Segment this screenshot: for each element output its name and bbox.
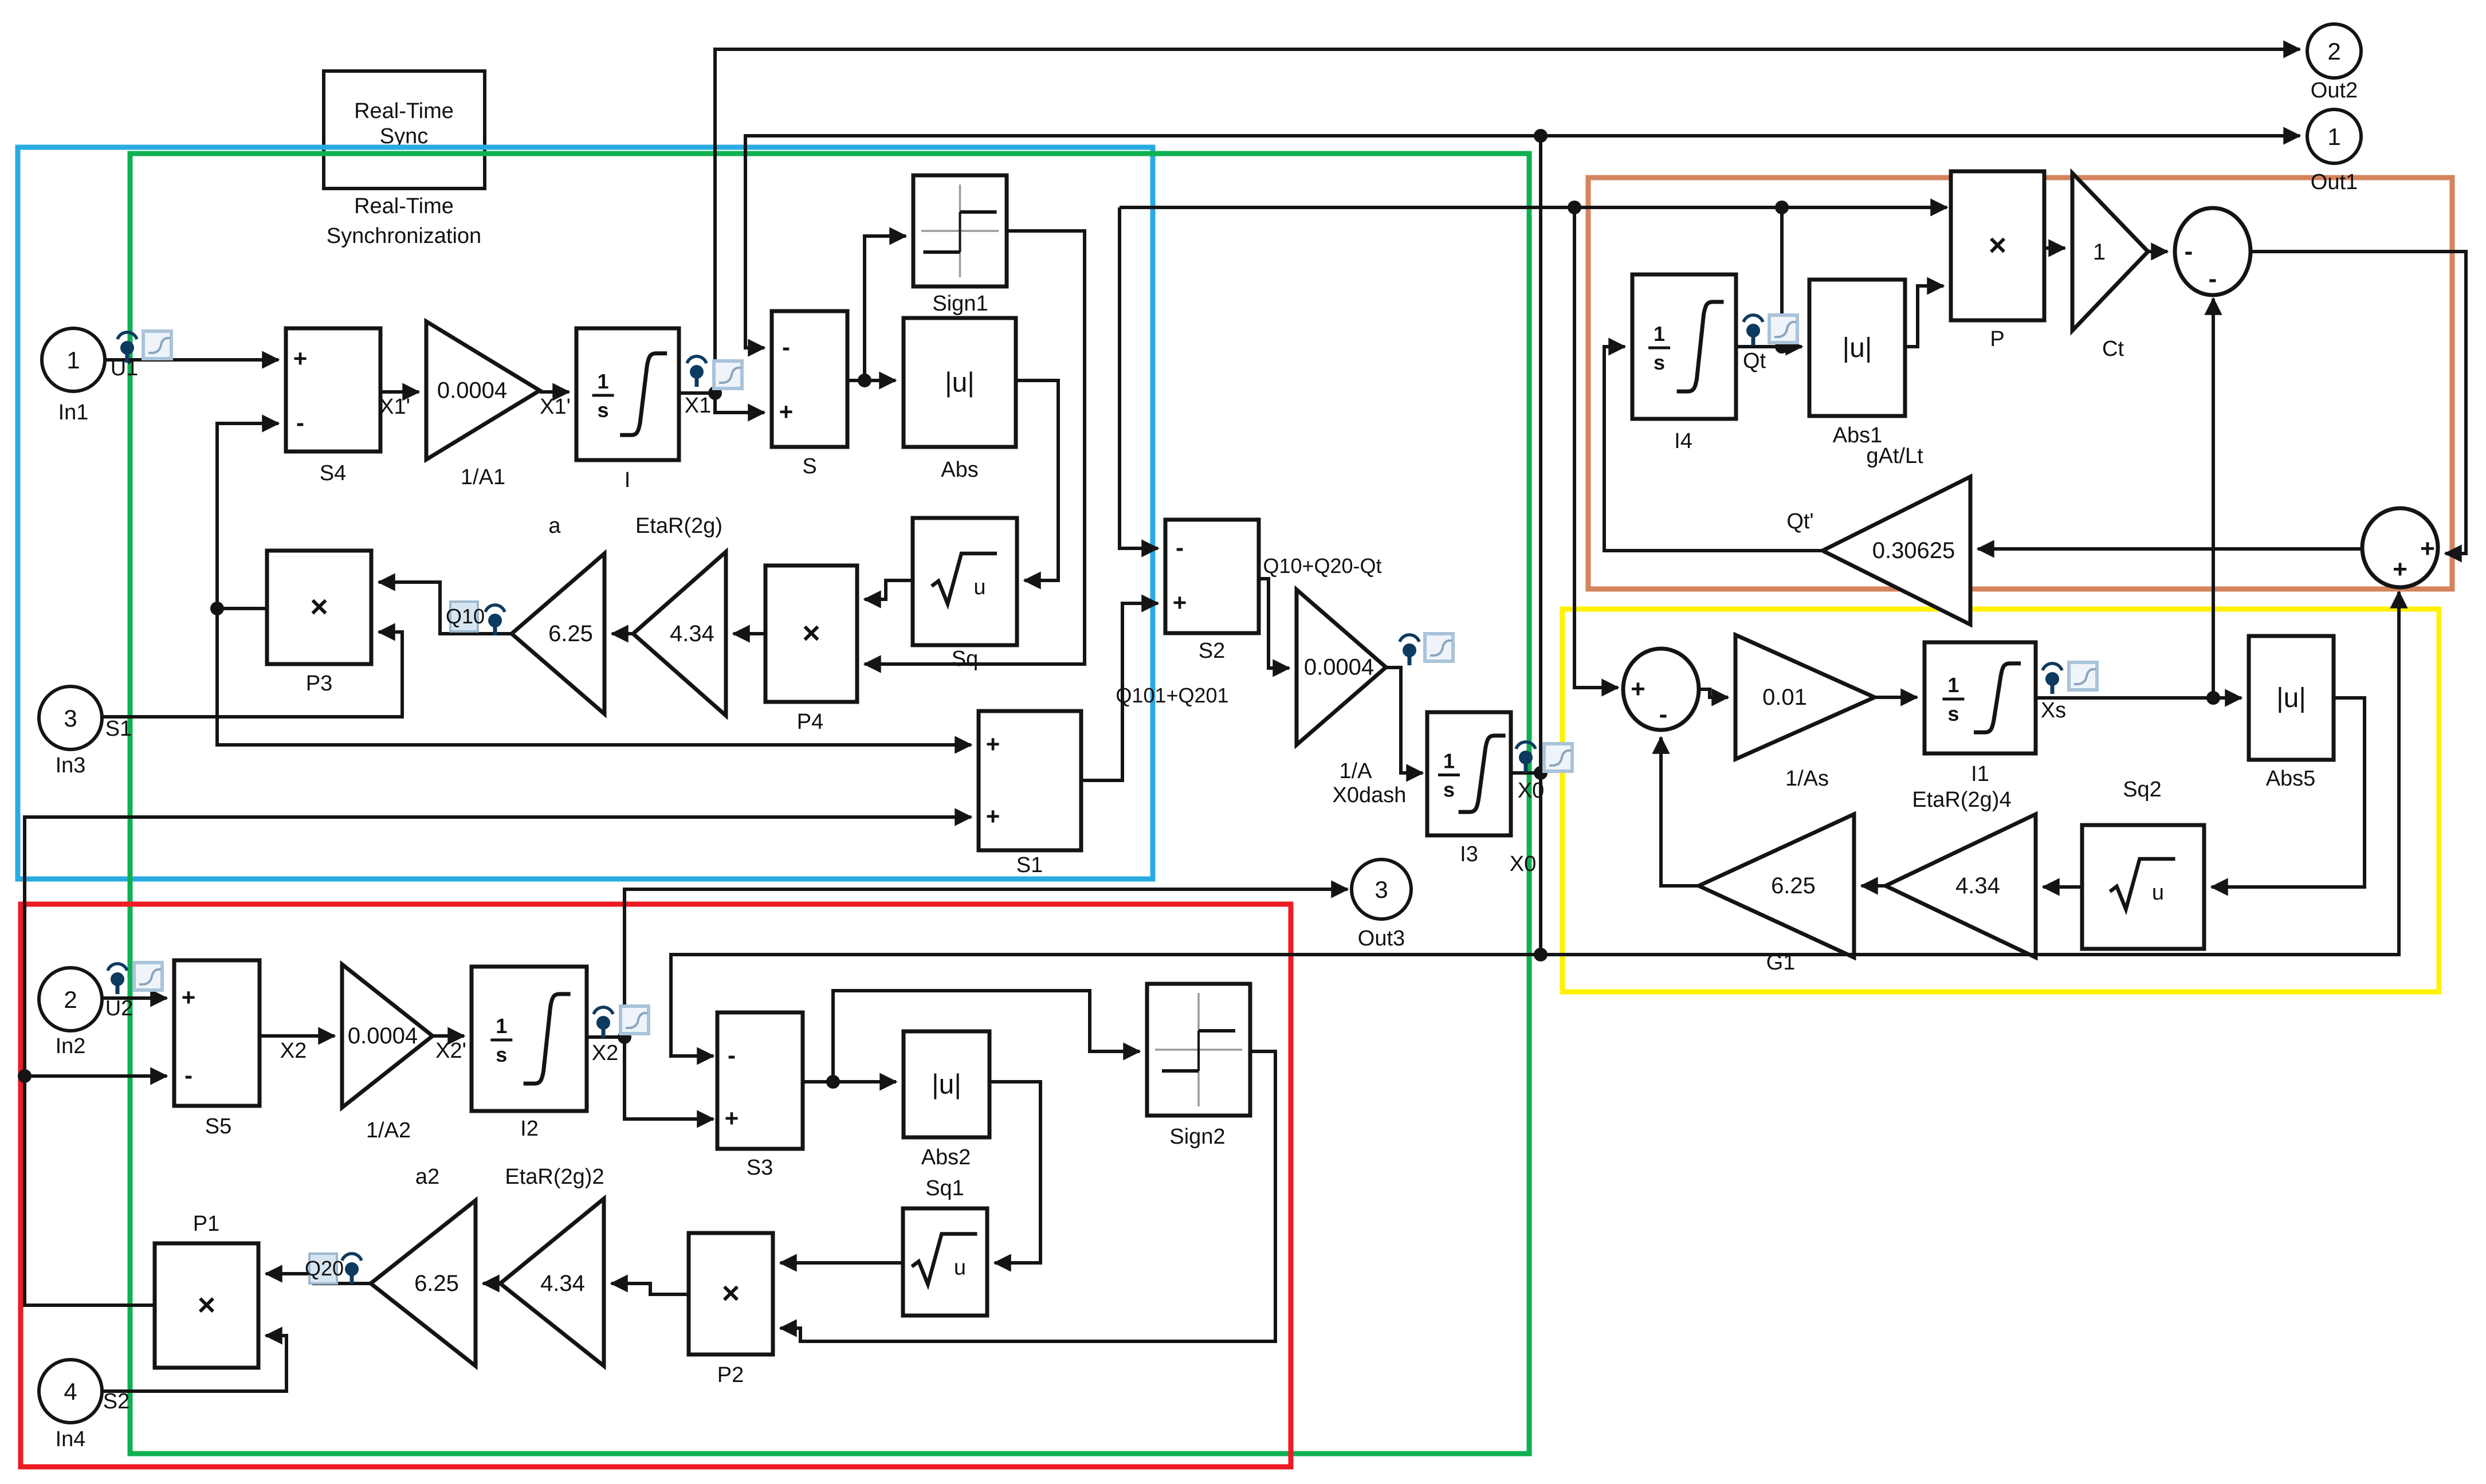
svg-text:S1: S1 <box>1016 853 1043 877</box>
svg-text:I4: I4 <box>1674 429 1692 453</box>
wire In3 to P3 <box>102 632 402 717</box>
label X1 <box>685 394 711 418</box>
integrator I2 <box>472 967 587 1111</box>
wire S2 out to gain 1/A <box>1259 579 1289 668</box>
testpoint X1 <box>687 356 706 387</box>
svg-text:4: 4 <box>64 1378 77 1405</box>
output port Out3 <box>1352 859 1411 919</box>
wire gain 4.34 to gain 6.25 <box>612 632 633 635</box>
svg-text:Q10+Q20-Qt: Q10+Q20-Qt <box>1263 554 1381 578</box>
label Abs5 <box>2266 767 2316 791</box>
label Xs <box>2041 698 2066 723</box>
node Xs junction <box>2206 691 2220 705</box>
svg-text:Synchronization: Synchronization <box>327 224 481 248</box>
wire Abs5 to Sq2 <box>2212 698 2365 887</box>
label S2 <box>1199 639 1225 663</box>
testpoint Q10 <box>485 605 505 635</box>
integrator I1 <box>1925 642 2036 753</box>
wire P1 out up to S1 second <box>25 817 971 1305</box>
svg-text:Out1: Out1 <box>2311 170 2358 194</box>
sum S4 <box>286 328 380 452</box>
svg-text:a: a <box>548 514 561 538</box>
svg-text:I3: I3 <box>1460 842 1478 866</box>
svg-text:In4: In4 <box>56 1427 86 1451</box>
testpoint X2 <box>594 1007 613 1038</box>
svg-text:I1: I1 <box>1971 762 1989 786</box>
svg-text:gAt/Lt: gAt/Lt <box>1866 444 1923 468</box>
label S5 <box>205 1114 231 1138</box>
svg-text:u: u <box>2152 881 2164 905</box>
svg-text:|u|: |u| <box>945 368 975 398</box>
group box orange <box>1588 178 2452 589</box>
wire Ct to CtSum <box>2148 250 2167 253</box>
scope badge X0dash <box>1425 634 1453 661</box>
svg-text:6.25: 6.25 <box>414 1271 459 1296</box>
scope badge X0 <box>1544 744 1572 771</box>
svg-text:-: - <box>184 1062 193 1089</box>
svg-text:1: 1 <box>598 370 609 393</box>
wire S1 out to S2 plus <box>1081 603 1158 780</box>
svg-text:3: 3 <box>1374 876 1388 903</box>
scope badge X1 <box>714 361 742 388</box>
svg-text:1: 1 <box>2093 240 2106 265</box>
node Qt-top junction <box>1775 201 1789 214</box>
svg-text:+: + <box>779 398 794 425</box>
wire Qt line to S2 minus <box>1120 207 1158 548</box>
input port In2 <box>39 968 102 1031</box>
svg-text:X2': X2' <box>435 1039 466 1063</box>
wire X2 to Out3 <box>625 889 1348 1037</box>
svg-text:-: - <box>1176 534 1184 561</box>
svg-text:Abs: Abs <box>941 458 978 482</box>
wire P2 to gain 4.34 b <box>611 1283 689 1294</box>
group box blue <box>18 147 1153 879</box>
gain 1/A1 0.0004 <box>426 321 540 460</box>
product P4 <box>765 566 857 702</box>
svg-text:1: 1 <box>1443 749 1455 773</box>
label P2 <box>717 1363 744 1387</box>
svg-text:P4: P4 <box>797 710 823 734</box>
product P1 <box>155 1243 258 1368</box>
svg-text:s: s <box>1654 351 1665 374</box>
sum circle XsSum <box>1623 649 1699 730</box>
label I <box>625 468 631 492</box>
wire Sq2 to gain 4.34 c <box>2043 885 2082 889</box>
svg-text:Xs: Xs <box>2041 698 2066 723</box>
label Sign1 <box>932 292 988 316</box>
svg-text:P3: P3 <box>306 672 332 696</box>
label Q101+Q201 <box>1116 684 1228 707</box>
wire S4 to gain 1/A1 <box>380 390 419 394</box>
wire Q20 gain to P1 upper <box>266 1274 371 1283</box>
svg-text:Sq: Sq <box>952 647 978 671</box>
label X2 node <box>592 1041 618 1065</box>
svg-text:0.0004: 0.0004 <box>1304 655 1374 680</box>
label Abs2 <box>921 1145 971 1169</box>
label I4 <box>1674 429 1692 453</box>
svg-text:2: 2 <box>2327 38 2340 65</box>
wire I3 out to X0 node <box>1511 771 1541 775</box>
integrator I <box>576 328 679 460</box>
label P4 <box>797 710 823 734</box>
wire I2 out to X2 node <box>587 1035 625 1039</box>
sqrt block Sq <box>913 518 1017 645</box>
svg-text:In2: In2 <box>56 1034 86 1058</box>
abs block Abs <box>904 318 1016 447</box>
svg-text:+: + <box>725 1105 739 1132</box>
label U2 <box>105 996 133 1020</box>
svg-text:+: + <box>293 345 308 372</box>
svg-text:+: + <box>2393 555 2408 583</box>
svg-text:×: × <box>198 1288 216 1322</box>
gain 1/A2 0.0004 <box>342 964 433 1108</box>
label In4 <box>56 1427 86 1451</box>
svg-text:Out3: Out3 <box>1358 926 1405 951</box>
svg-text:+: + <box>182 984 196 1011</box>
label EtaR(2g)2 <box>505 1165 604 1189</box>
svg-text:×: × <box>310 590 328 624</box>
svg-text:EtaR(2g)4: EtaR(2g)4 <box>1912 788 2011 812</box>
wire S3 out to Abs2 <box>803 1080 896 1083</box>
label Sign2 <box>1169 1125 1225 1149</box>
label Qtprime <box>1786 509 1813 533</box>
wire Qt top to yellow sum <box>1574 207 1618 688</box>
gain g4.34 4.34 <box>1886 814 2036 957</box>
group box green <box>130 154 1529 1454</box>
wire I1 out to Abs5 <box>2036 696 2241 700</box>
svg-text:3: 3 <box>64 705 77 732</box>
label S <box>802 454 816 478</box>
svg-text:P: P <box>1990 327 2004 351</box>
label Sq2 <box>2123 778 2162 802</box>
svg-text:S5: S5 <box>205 1114 231 1138</box>
input port In4 <box>39 1360 102 1423</box>
wire In4 to P1 lower <box>100 1336 286 1391</box>
node X0-Out1 junction <box>1534 129 1548 143</box>
label a <box>548 514 561 538</box>
scope badge Xs <box>2069 662 2097 690</box>
node Qt-yellow junction <box>1568 201 1581 214</box>
svg-text:Sign1: Sign1 <box>932 292 988 316</box>
label X2 sig <box>280 1039 307 1063</box>
svg-text:s: s <box>1443 778 1455 802</box>
product P <box>1951 171 2044 320</box>
node S out junction <box>858 374 871 387</box>
sum circle QSum <box>2362 508 2438 587</box>
sum circle CtSum <box>2175 208 2251 295</box>
svg-text:X1': X1' <box>379 395 410 419</box>
svg-text:2: 2 <box>64 986 77 1013</box>
svg-text:Q10: Q10 <box>446 604 485 628</box>
node S3 out junction <box>826 1075 840 1089</box>
svg-text:|u|: |u| <box>932 1070 961 1100</box>
wire S5 to gain 1/A2 <box>260 1034 335 1038</box>
svg-text:I: I <box>625 468 631 492</box>
label Ct <box>2102 337 2124 361</box>
svg-text:In1: In1 <box>58 401 89 425</box>
svg-text:+: + <box>986 803 1000 830</box>
svg-text:0.30625: 0.30625 <box>1872 538 1955 563</box>
wire G1 X0 to QSum <box>1541 592 2399 955</box>
wire Abs1 to P lower <box>1905 286 1943 347</box>
scope badge X2 <box>620 1006 649 1034</box>
label In3 <box>56 753 86 778</box>
wire Abs2 to Sq1 <box>989 1082 1040 1263</box>
label In1 <box>58 401 89 425</box>
wire Out1 branch to S minus <box>745 136 1541 348</box>
integrator I3 <box>1427 712 1511 835</box>
node X1 junction <box>708 386 722 400</box>
sqrt block Sq1 <box>903 1208 987 1316</box>
svg-text:×: × <box>802 616 820 650</box>
wire Sq1 to P2 upper <box>780 1261 903 1265</box>
gain Ct 1 <box>2072 173 2148 331</box>
svg-text:-: - <box>296 409 304 436</box>
sum S5 <box>174 960 260 1106</box>
sum S3 <box>717 1012 803 1149</box>
svg-text:Q20: Q20 <box>305 1257 344 1280</box>
svg-text:s: s <box>598 398 609 422</box>
group box yellow <box>1562 609 2439 992</box>
svg-text:|u|: |u| <box>1843 333 1872 363</box>
label Out3 <box>1358 926 1405 951</box>
svg-text:×: × <box>722 1276 740 1310</box>
wire X0 vertical <box>1539 136 1542 955</box>
svg-text:X0dash: X0dash <box>1333 783 1407 807</box>
wire Sq to P4 upper <box>865 580 913 599</box>
abs block Abs5 <box>2249 636 2334 760</box>
svg-text:6.25: 6.25 <box>1771 873 1816 898</box>
gain a2 6.25 <box>371 1200 476 1366</box>
wire gain 0.30625 to I4 <box>1604 347 1823 551</box>
testpoint U2 <box>108 964 127 994</box>
svg-text:Sq2: Sq2 <box>2123 778 2162 802</box>
testpoint Xs <box>2043 664 2062 694</box>
svg-text:S2: S2 <box>103 1389 129 1414</box>
svg-text:Abs2: Abs2 <box>921 1145 971 1169</box>
testpoint Qt <box>1743 315 1763 346</box>
svg-text:a2: a2 <box>415 1165 439 1189</box>
label In2 <box>56 1034 86 1058</box>
label S4 <box>320 461 346 485</box>
input port In3 <box>39 686 102 749</box>
svg-text:Out2: Out2 <box>2311 78 2358 103</box>
wire CtSum out loop to QSum <box>2251 252 2466 553</box>
svg-text:Q101+Q201: Q101+Q201 <box>1116 684 1228 707</box>
svg-text:1/A2: 1/A2 <box>366 1118 411 1143</box>
svg-text:×: × <box>1989 228 2007 262</box>
svg-text:X1': X1' <box>540 395 571 419</box>
subsystem Real-Time Sync <box>324 71 485 189</box>
svg-text:X1: X1 <box>685 394 711 418</box>
svg-text:+: + <box>2420 535 2435 563</box>
sign block Sign2 <box>1147 984 1250 1116</box>
wire Q10 gain 6.25 to P3 <box>379 582 512 634</box>
svg-text:1/A: 1/A <box>1339 759 1372 783</box>
gain a 6.25 <box>512 553 604 714</box>
wire U1 In1 to S4 <box>103 358 278 362</box>
scope badge U2 <box>134 963 162 990</box>
wire X2 to S3 plus <box>625 1037 713 1119</box>
wire XsSum out to gain 0.01 <box>1699 689 1728 697</box>
scope badge U1 <box>143 331 171 359</box>
sum S2 <box>1165 520 1259 633</box>
svg-text:1: 1 <box>66 347 80 374</box>
wire I4 out to Abs1 <box>1736 345 1802 348</box>
wire Xs up to CtSum minus <box>2212 299 2215 698</box>
svg-text:U2: U2 <box>105 996 133 1020</box>
wire gain 6.25c to XsSum minus <box>1661 737 1699 886</box>
node X2 junction <box>618 1030 631 1044</box>
svg-text:X2: X2 <box>280 1039 307 1063</box>
svg-text:-: - <box>1659 700 1668 728</box>
label P1 <box>193 1212 219 1236</box>
label EtaR(2g)4 <box>1912 788 2011 812</box>
svg-text:0.0004: 0.0004 <box>437 378 507 403</box>
label X1prime a <box>379 395 410 419</box>
node X0 junction <box>1534 766 1548 780</box>
wire gain 0.01 to I1 <box>1875 696 1917 699</box>
tag Q10 <box>446 602 485 631</box>
svg-text:1: 1 <box>1654 322 1665 346</box>
svg-text:4.34: 4.34 <box>1955 873 2000 898</box>
label P3 <box>306 672 332 696</box>
svg-text:1: 1 <box>496 1014 507 1038</box>
label S2 port <box>103 1389 129 1414</box>
wire P out to Ct <box>2044 246 2065 250</box>
svg-text:+: + <box>986 731 1000 757</box>
svg-text:1: 1 <box>1947 673 1959 697</box>
svg-text:1/A1: 1/A1 <box>461 465 505 489</box>
sum S1 <box>979 711 1081 850</box>
svg-text:+: + <box>1631 675 1645 703</box>
svg-text:In3: In3 <box>56 753 86 778</box>
integrator I4 <box>1632 274 1736 419</box>
wire X0 to Out1 <box>1541 134 2300 138</box>
label Abs1 <box>1833 423 1883 447</box>
sign block Sign1 <box>913 175 1007 286</box>
svg-text:4.34: 4.34 <box>540 1271 585 1296</box>
svg-text:EtaR(2g): EtaR(2g) <box>635 514 722 538</box>
svg-text:1/As: 1/As <box>1785 767 1829 791</box>
svg-text:-: - <box>2185 237 2193 265</box>
label 1/A2 <box>366 1118 411 1143</box>
label U1 <box>111 356 139 380</box>
wire gain 1/A2 to I2 <box>433 1034 464 1038</box>
label I2 <box>520 1117 539 1141</box>
svg-text:u: u <box>973 575 985 599</box>
svg-text:Qt: Qt <box>1743 349 1766 373</box>
svg-text:-: - <box>782 333 790 360</box>
label Q10+Q20-Qt <box>1263 554 1381 578</box>
sum S <box>772 311 847 447</box>
wire Q10 to S1 first <box>217 608 971 745</box>
svg-text:|u|: |u| <box>2276 683 2306 713</box>
label G1 <box>1766 951 1796 975</box>
wire X1 to Out2 <box>715 49 2300 392</box>
svg-text:Real-Time: Real-Time <box>354 194 454 218</box>
wire Q20 to S5 minus <box>25 1074 167 1078</box>
svg-text:-: - <box>2209 265 2217 293</box>
label Out2 <box>2311 78 2358 103</box>
product P2 <box>689 1233 773 1355</box>
testpoint U1 <box>117 332 137 363</box>
wire Qt top line to P <box>1120 206 1947 209</box>
svg-text:Sign2: Sign2 <box>1169 1125 1225 1149</box>
wire gain 4.34b to 6.25b <box>483 1282 500 1285</box>
label Out1 <box>2311 170 2358 194</box>
group box red <box>21 904 1291 1467</box>
label EtaR(2g) <box>635 514 722 538</box>
abs block Abs1 <box>1809 280 1905 416</box>
node Q20 junction <box>18 1069 32 1083</box>
svg-text:4.34: 4.34 <box>670 621 714 646</box>
label X2prime <box>435 1039 466 1063</box>
wire U2 In2 to S5 <box>100 996 167 1000</box>
svg-text:S4: S4 <box>320 461 346 485</box>
wire S out to Sign1 <box>865 236 906 380</box>
scope badge Qt <box>1769 315 1797 343</box>
label Sq1 <box>925 1176 964 1200</box>
label Real-Time Synchronization <box>327 194 481 248</box>
svg-text:EtaR(2g)2: EtaR(2g)2 <box>505 1165 604 1189</box>
wire X0 to S3 minus <box>671 955 1541 1056</box>
abs block Abs2 <box>904 1031 989 1137</box>
output port Out1 <box>2307 109 2361 163</box>
tag Q20 <box>305 1254 344 1283</box>
label X0 a <box>1518 779 1544 803</box>
svg-text:Real-Time: Real-Time <box>354 99 454 123</box>
svg-text:S3: S3 <box>747 1156 773 1180</box>
svg-text:0.01: 0.01 <box>1762 685 1807 710</box>
gain EtaR(2g)2 4.34 <box>500 1199 604 1366</box>
label Sq <box>952 647 978 671</box>
label gAt/Lt <box>1866 444 1923 468</box>
label X0 b <box>1510 852 1536 876</box>
svg-text:-: - <box>728 1042 736 1069</box>
wire QSum out to gain 0.30625 <box>1978 547 2362 551</box>
svg-text:S: S <box>802 454 816 478</box>
svg-text:Sq1: Sq1 <box>925 1176 964 1200</box>
svg-text:Ct: Ct <box>2102 337 2124 361</box>
input port In1 <box>42 328 105 391</box>
label X1prime b <box>540 395 571 419</box>
output port Out2 <box>2307 24 2361 78</box>
svg-text:Abs5: Abs5 <box>2266 767 2316 791</box>
svg-text:P1: P1 <box>193 1212 219 1236</box>
svg-text:u: u <box>954 1256 966 1280</box>
label S3 <box>747 1156 773 1180</box>
node Qt junction <box>1775 340 1789 354</box>
wire gain 4.34c to 6.25c <box>1861 884 1886 888</box>
label 1/As <box>1785 767 1829 791</box>
wire Sign2 to P2 lower <box>780 1051 1275 1341</box>
wire P3 out to S4 minus <box>217 423 278 608</box>
wire Qt vertical <box>1780 207 1784 347</box>
node G1 junction <box>1534 948 1548 961</box>
wire gain 1/A1 to I <box>540 390 569 394</box>
testpoint X0 <box>1516 742 1535 772</box>
svg-text:S2: S2 <box>1199 639 1225 663</box>
gain 1/As 0.01 <box>1735 635 1875 759</box>
label Abs <box>941 458 978 482</box>
svg-text:0.0004: 0.0004 <box>348 1023 418 1049</box>
svg-text:I2: I2 <box>520 1117 539 1141</box>
node P3 junction <box>210 602 224 615</box>
wire S out to Abs <box>847 379 896 382</box>
label a2 <box>415 1165 439 1189</box>
wire gain 1/A to I3 <box>1386 668 1423 773</box>
